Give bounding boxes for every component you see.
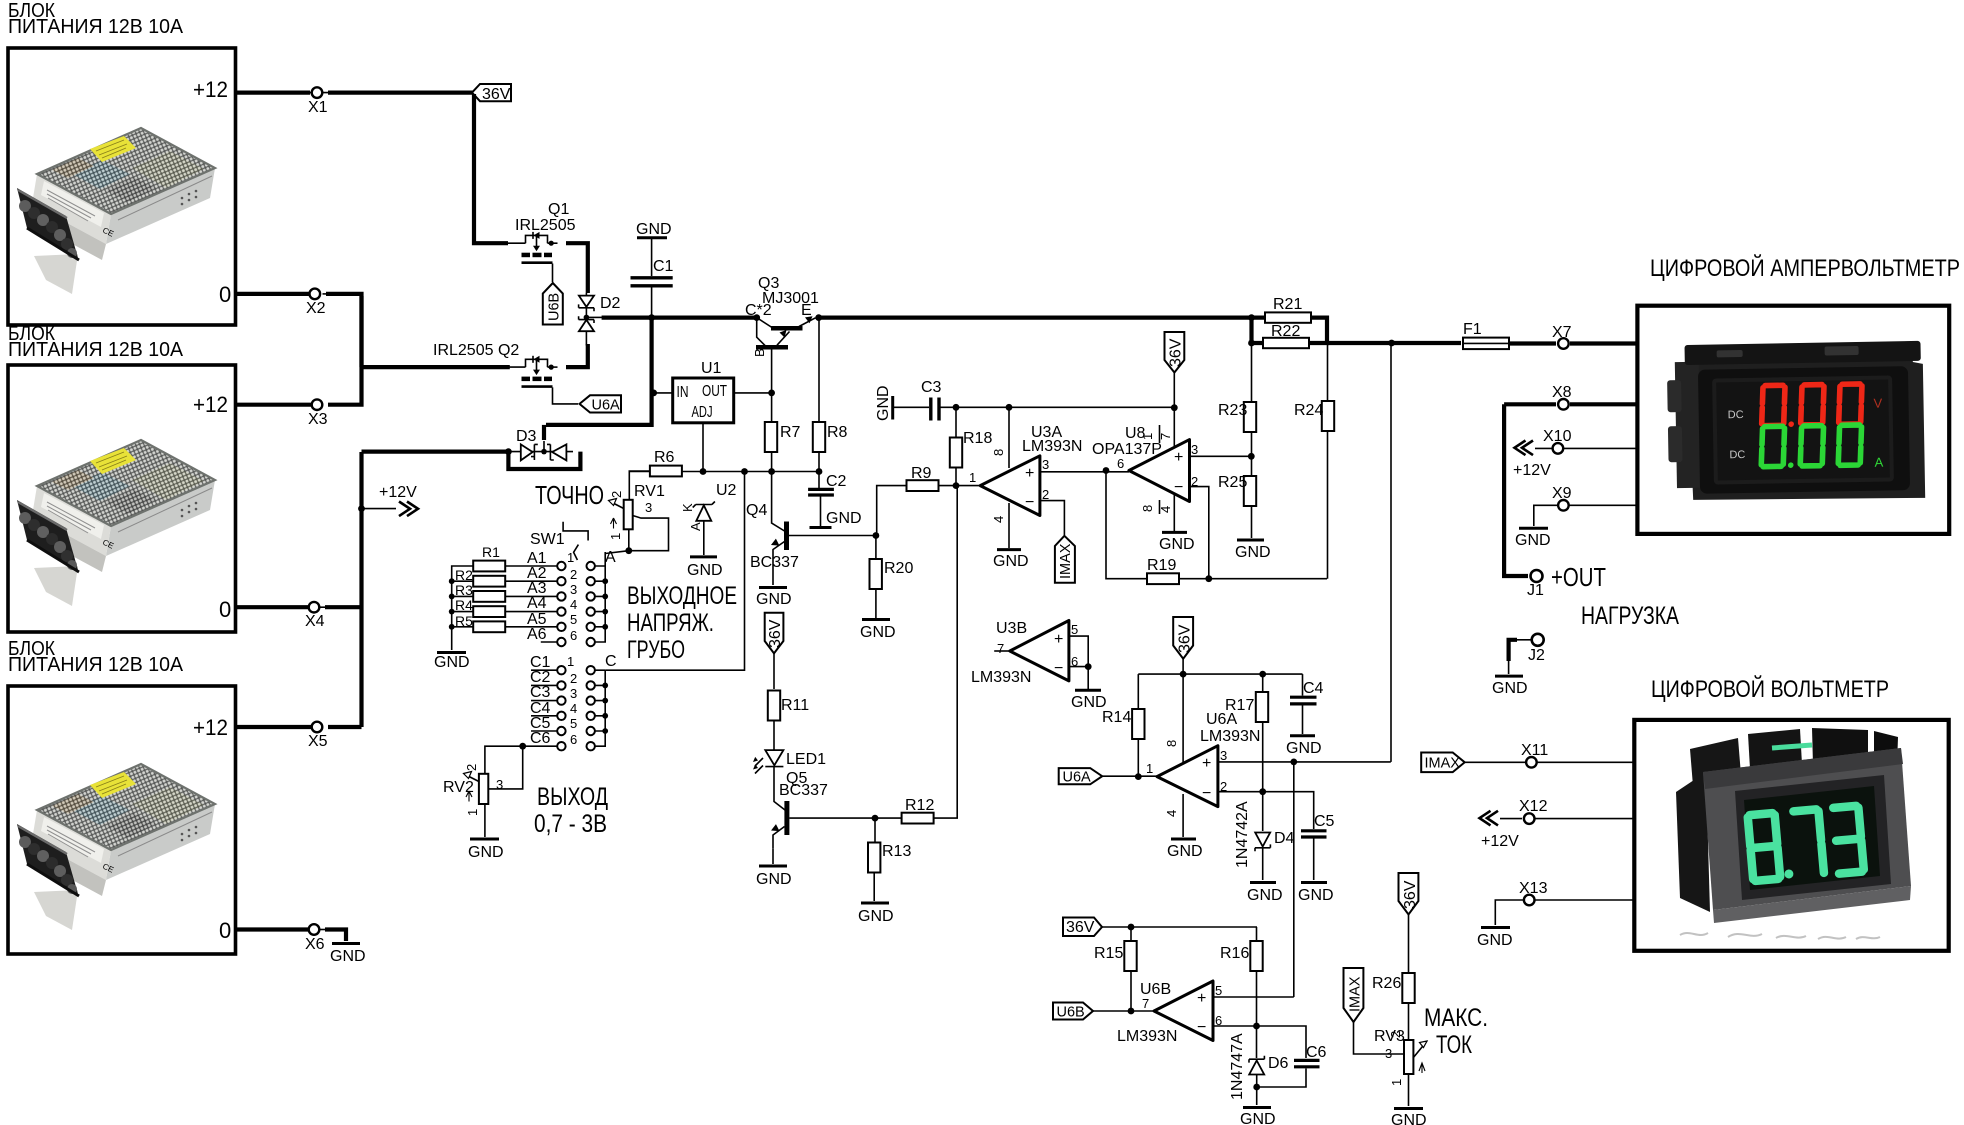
junction U3A pin1 node: [953, 482, 960, 489]
wire R14 top: [1137, 674, 1139, 709]
ground Q4: [756, 588, 792, 609]
svg-text:R24: R24: [1294, 402, 1323, 419]
ground C2: [810, 526, 832, 529]
svg-text:НАГРУЗКА: НАГРУЗКА: [1581, 602, 1679, 630]
wire R9 right: [939, 485, 980, 487]
wire R23 top: [1251, 343, 1253, 402]
junction R15/U6B: [1128, 1008, 1135, 1015]
svg-text:ЦИФРОВОЙ ВОЛЬТМЕТР: ЦИФРОВОЙ ВОЛЬТМЕТР: [1651, 675, 1889, 703]
wire R9 left to Q4 base node: [877, 486, 907, 536]
wire box3 0 to X6: [236, 927, 308, 931]
svg-text:X1: X1: [308, 99, 328, 116]
svg-text:1: 1: [1389, 1079, 1404, 1086]
svg-text:C4: C4: [1303, 680, 1324, 697]
svg-text:GND: GND: [1477, 932, 1513, 949]
svg-text:3: 3: [1220, 748, 1227, 763]
wire U6B pin6: [1213, 1026, 1306, 1058]
voltmeter photo: [1676, 728, 1911, 939]
svg-text:R21: R21: [1273, 296, 1302, 313]
wire C6 to RV2: [485, 746, 557, 774]
svg-text:A6: A6: [527, 626, 547, 643]
svg-text:R16: R16: [1220, 945, 1249, 962]
wire RV1 wiper: [629, 516, 669, 551]
svg-text:0,7 - 3В: 0,7 - 3В: [534, 810, 607, 838]
svg-text:C3: C3: [921, 379, 942, 396]
svg-text:OUT: OUT: [702, 383, 727, 400]
node X2: [306, 289, 329, 317]
wire U8 pin2 to R19 line: [1190, 487, 1209, 579]
svg-text:GND: GND: [1167, 843, 1203, 860]
wire X8 to ammeter: [1570, 402, 1637, 406]
wire R26 bottom to RV3: [1408, 1003, 1410, 1040]
wire U6A pin2: [1218, 792, 1314, 829]
wire box2 0 to X4: [236, 605, 308, 609]
node J2: [1528, 634, 1545, 664]
resistor R20: [870, 559, 914, 589]
svg-text:LM393N: LM393N: [1117, 1028, 1177, 1045]
wire X4 to vertical bus: [325, 605, 362, 609]
svg-text:C: C: [605, 653, 617, 670]
svg-text:+12: +12: [193, 392, 228, 417]
PSU photo 3: [17, 764, 215, 930]
svg-text:Q1: Q1: [548, 201, 569, 218]
junction bus/R21: [1248, 314, 1255, 321]
svg-text:GND: GND: [993, 553, 1029, 570]
svg-text:ADJ: ADJ: [692, 404, 713, 421]
svg-text:LM393N: LM393N: [1200, 728, 1260, 745]
wire U6A pin3: [1218, 761, 1391, 763]
svg-text:R15: R15: [1094, 945, 1123, 962]
resistor R24: [1294, 401, 1334, 431]
wire RV2 wiper: [488, 746, 522, 789]
wire A common vertical: [595, 552, 605, 642]
svg-text:ГРУБО: ГРУБО: [627, 636, 685, 664]
svg-text:+12V: +12V: [1513, 462, 1551, 479]
svg-text:3: 3: [496, 777, 503, 792]
svg-text:LM393N: LM393N: [1022, 438, 1082, 455]
svg-text:5: 5: [570, 612, 577, 627]
flag +12V arrow: [379, 484, 418, 516]
power supply box 1: [8, 48, 236, 325]
wire R7 top: [771, 393, 773, 422]
svg-text:GND: GND: [826, 510, 862, 527]
wire R6 left to RV1: [629, 471, 650, 500]
capacitor C3: [921, 379, 942, 421]
transistor Q5 BC337: [771, 770, 875, 864]
junction rail pin8: [1180, 671, 1187, 678]
svg-text:+: +: [1054, 631, 1063, 648]
svg-text:7: 7: [1142, 996, 1149, 1011]
svg-text:R6: R6: [654, 449, 675, 466]
node X13: [1519, 880, 1548, 905]
wire R24 bottom: [1327, 431, 1329, 579]
svg-text:2: 2: [570, 671, 577, 686]
text ВЫХОДНОЕ НАПРЯЖ. ГРУБО: [627, 582, 737, 664]
wire R11 to LED1: [773, 721, 775, 751]
junction R18 top: [953, 404, 960, 411]
svg-text:2: 2: [1388, 1031, 1403, 1038]
wire Q1 gate to U6B tag: [552, 264, 554, 283]
wire GND to C3: [893, 406, 929, 408]
wire A6 stub: [541, 641, 557, 643]
text МАКС. ТОК: [1424, 1004, 1488, 1059]
svg-text:−: −: [1174, 479, 1183, 496]
wire X2 to junction and down: [326, 294, 362, 367]
resistor R3: [455, 582, 505, 602]
svg-text:1: 1: [1146, 761, 1153, 776]
op-amp U3B LM393N: [971, 620, 1092, 689]
text ВЫХОД 0,7 - 3В: [534, 783, 608, 838]
op-amp U8 OPA137P: [1092, 425, 1198, 531]
junction C1-bus: [648, 314, 655, 321]
wire IMAX to RV3 wiper: [1354, 1022, 1405, 1054]
power supply box 3: [8, 686, 236, 954]
svg-text:U6B: U6B: [547, 293, 563, 321]
svg-text:36V: 36V: [1066, 919, 1095, 936]
svg-text:+OUT: +OUT: [1551, 562, 1606, 592]
svg-text:X8: X8: [1552, 384, 1572, 401]
resistor R22: [1263, 323, 1309, 348]
svg-text:ТОК: ТОК: [1436, 1031, 1472, 1059]
junction meter sense: [1388, 340, 1395, 347]
wire box1 +12 to X1: [236, 90, 310, 94]
ground J2: [1492, 676, 1528, 697]
ground RV2: [468, 839, 504, 861]
wire R20 top: [875, 536, 877, 560]
svg-text:1: 1: [567, 654, 574, 669]
wire X11 to voltmeter: [1537, 761, 1634, 763]
node X3: [308, 399, 335, 428]
ground X6: [330, 944, 366, 966]
resistor R5: [455, 613, 505, 632]
zener D4 1N4742A: [1234, 801, 1295, 880]
svg-text:0: 0: [219, 918, 231, 943]
wire 36V U6B rail: [1102, 926, 1257, 928]
svg-text:1: 1: [567, 550, 574, 565]
svg-text:GND: GND: [1515, 532, 1551, 549]
svg-text:3: 3: [1191, 442, 1198, 457]
svg-text:5: 5: [1071, 622, 1078, 637]
svg-text:5: 5: [1215, 983, 1222, 998]
wire LED1 to Q5: [774, 767, 785, 810]
wire vertical X4-X5 net to D3: [359, 452, 363, 727]
svg-text:3: 3: [570, 582, 577, 597]
svg-text:X3: X3: [308, 411, 328, 428]
svg-text:GND: GND: [1235, 544, 1271, 561]
wire R15 bottom: [1130, 971, 1132, 1011]
wire +12V tap: [362, 508, 397, 510]
junction Q4 base/R20: [873, 532, 880, 539]
svg-text:IMAX: IMAX: [1058, 543, 1074, 579]
switch SW1: [530, 522, 588, 560]
junction R22 left: [1248, 340, 1255, 347]
resistor R16: [1220, 941, 1263, 971]
svg-text:X9: X9: [1552, 485, 1572, 502]
svg-text:U6B: U6B: [1057, 1005, 1085, 1021]
wire R19 left to U8 out: [1106, 471, 1147, 579]
svg-text:X2: X2: [306, 300, 326, 317]
wire R13 top: [874, 818, 876, 843]
svg-text:R20: R20: [884, 560, 913, 577]
node X5: [308, 722, 335, 750]
wire R18 bottom: [955, 468, 957, 486]
flag +12V (X10): [1513, 441, 1552, 480]
svg-text:GND: GND: [687, 562, 723, 579]
svg-text:D6: D6: [1268, 1055, 1289, 1072]
svg-text:IRL2505: IRL2505: [515, 217, 576, 234]
svg-text:DC: DC: [1729, 449, 1745, 461]
ground D6: [1240, 1108, 1276, 1125]
text БЛОК ПИТАНИЯ 12В 10А (block 2): [8, 323, 184, 361]
PSU photo 1: [17, 128, 215, 294]
svg-text:+: +: [1174, 449, 1183, 466]
wire R21/R22 parallel left: [1252, 318, 1266, 343]
svg-text:1N4747A: 1N4747A: [1229, 1033, 1246, 1100]
svg-text:U1: U1: [701, 360, 722, 377]
svg-text:F1: F1: [1463, 321, 1482, 338]
svg-text:C6: C6: [530, 730, 551, 747]
resistor R18: [950, 430, 993, 468]
ground Q5: [756, 866, 792, 888]
wire R23 bottom: [1251, 432, 1253, 456]
svg-text:BC337: BC337: [779, 782, 828, 799]
svg-text:IMAX: IMAX: [1348, 976, 1364, 1012]
wire bus down to U1/D3: [546, 318, 652, 425]
wire X6 to ground: [325, 930, 346, 942]
svg-text:8: 8: [1140, 505, 1155, 512]
resistor R2: [455, 567, 505, 587]
resistor R6: [650, 449, 682, 476]
resistor R17: [1225, 692, 1268, 722]
svg-text:6: 6: [1117, 456, 1124, 471]
transistor Q2 IRL2505: [508, 356, 558, 387]
junction Q3 collector: [753, 314, 760, 321]
capacitor C2: [808, 473, 861, 527]
wire R18 top: [955, 407, 957, 438]
svg-text:+: +: [1202, 755, 1211, 772]
svg-text:U6A: U6A: [592, 398, 621, 414]
diode D2 (dual zener): [579, 293, 621, 346]
svg-text:GND: GND: [860, 624, 896, 641]
wire box1 0 to X2: [236, 292, 309, 296]
ground C5: [1298, 883, 1334, 905]
svg-text:R7: R7: [780, 424, 801, 441]
svg-text:R9: R9: [911, 465, 932, 482]
text БЛОК ПИТАНИЯ 12В 10А (block 3): [8, 638, 184, 676]
node X4: [305, 602, 326, 630]
wire IMAX to X11: [1465, 761, 1525, 763]
svg-text:ПИТАНИЯ 12В 10А: ПИТАНИЯ 12В 10А: [8, 339, 184, 361]
op-amp U6A LM393N: [1146, 674, 1260, 837]
zener D6 1N4747A: [1229, 1033, 1289, 1105]
svg-text:ВЫХОД: ВЫХОД: [537, 783, 608, 811]
junction pin3/vertical: [1290, 759, 1297, 766]
resistor R25: [1218, 474, 1256, 506]
wire 36V to U8 pin7: [1173, 373, 1175, 447]
wire box2 +12 to X3: [236, 403, 311, 407]
wire X7 to ammeter: [1570, 341, 1637, 345]
wire U3A pin2 to IMAX: [1040, 501, 1064, 535]
svg-text:GND: GND: [875, 385, 892, 421]
LED LED1: [753, 750, 826, 773]
power tag 36V (X1): [472, 84, 511, 103]
svg-text:LM393N: LM393N: [971, 669, 1031, 686]
ground U3A: [993, 550, 1029, 570]
wire 36V to R26: [1408, 915, 1410, 974]
wire ADJ row: [629, 471, 819, 473]
node X9: [1552, 485, 1572, 511]
tag U6A (comparator input): [1059, 768, 1103, 785]
voltmeter module box: [1634, 720, 1948, 951]
svg-text:A: A: [1874, 455, 1883, 470]
svg-text:2: 2: [570, 567, 577, 582]
junction R15: [1128, 924, 1135, 931]
svg-text:X12: X12: [1519, 798, 1548, 815]
resistor R14: [1102, 709, 1145, 739]
wire R14 bottom: [1137, 739, 1139, 777]
wire F1 to X7: [1509, 341, 1556, 345]
potentiometer RV2: [443, 764, 503, 816]
wire X1 to 36V tag: [328, 90, 476, 94]
svg-text:36V: 36V: [1402, 880, 1419, 909]
wire R19 right to R24: [1179, 578, 1327, 580]
wire U8 pin3 to R23/R25 node: [1190, 455, 1252, 457]
resistor R23: [1218, 402, 1256, 432]
wire bus to U1 IN: [653, 392, 673, 394]
ground R25: [1235, 540, 1271, 561]
wire U8 out junction: [1103, 467, 1110, 474]
svg-text:IN: IN: [677, 384, 689, 401]
svg-text:4: 4: [991, 516, 1006, 523]
wire X8 net to +OUT: [1504, 404, 1556, 576]
op-amp U3A LM393N: [969, 407, 1082, 548]
svg-text:R26: R26: [1372, 975, 1401, 992]
svg-text:GND: GND: [1159, 536, 1195, 553]
wire Q2 gate to U6A tag: [553, 387, 579, 404]
wire RV3 bottom: [1408, 1074, 1410, 1106]
svg-text:ПИТАНИЯ 12В 10А: ПИТАНИЯ 12В 10А: [8, 16, 184, 38]
wire U6A tag to pin1: [1102, 775, 1157, 777]
resistor R21: [1265, 296, 1311, 323]
wire X13 to voltmeter: [1535, 899, 1634, 901]
ground R1-R5: [434, 653, 470, 672]
svg-text:C6: C6: [1306, 1044, 1327, 1061]
svg-text:7: 7: [997, 641, 1004, 656]
junction R8/C2: [816, 468, 823, 475]
svg-text:C1: C1: [653, 258, 674, 275]
svg-text:GND: GND: [1298, 887, 1334, 904]
switch bank A contacts: [527, 549, 616, 646]
wire U1 OUT to Q3 base: [734, 392, 772, 394]
svg-text:ПИТАНИЯ 12В 10А: ПИТАНИЯ 12В 10А: [8, 654, 184, 676]
wire R17 top: [1262, 674, 1264, 692]
ground U6A: [1167, 839, 1203, 860]
svg-text:GND: GND: [756, 591, 792, 608]
junction rail R17: [1259, 671, 1266, 678]
wire U1 ADJ down: [702, 423, 704, 472]
svg-text:6: 6: [570, 732, 577, 747]
svg-text:GND: GND: [1240, 1111, 1276, 1125]
wire X5 to vertical: [328, 725, 362, 729]
svg-text:U3B: U3B: [996, 620, 1027, 637]
wire to Q2 drain: [360, 365, 510, 369]
resistor R11: [768, 691, 809, 721]
ground R13: [858, 903, 894, 925]
resistor R12: [902, 797, 935, 823]
svg-text:Q4: Q4: [746, 502, 767, 519]
svg-text:LED1: LED1: [786, 751, 826, 768]
wire R25 bottom: [1251, 506, 1253, 538]
svg-text:X4: X4: [305, 613, 325, 630]
transistor Q3 MJ3001: [745, 275, 819, 393]
transistor Q4 BC337: [746, 472, 876, 586]
flag +12V (X12): [1480, 811, 1523, 850]
svg-text:RV1: RV1: [634, 483, 665, 500]
svg-text:8: 8: [1164, 740, 1179, 747]
wire C common vertical: [595, 670, 605, 746]
tag IMAX (RV3): [1344, 968, 1364, 1022]
node J1: [1527, 570, 1544, 599]
wire R22 node to F1: [1327, 341, 1461, 345]
svg-text:36V: 36V: [1168, 338, 1185, 367]
wire R12 left: [875, 817, 902, 819]
svg-text:3: 3: [570, 686, 577, 701]
resistor R8: [813, 422, 848, 452]
junction RV1 bottom: [625, 547, 632, 554]
svg-text:R25: R25: [1218, 474, 1247, 491]
svg-text:C2: C2: [826, 473, 847, 490]
junction pin2/R17/D4: [1259, 788, 1266, 795]
svg-text:R17: R17: [1225, 697, 1254, 714]
wire R13 bottom: [873, 873, 875, 902]
resistor R13: [868, 843, 911, 873]
tag U6A (Q2 gate): [580, 395, 622, 413]
svg-text:3: 3: [1042, 457, 1049, 472]
svg-text:4: 4: [570, 701, 577, 716]
wire X3 to vertical: [328, 296, 362, 405]
svg-text:R3: R3: [455, 582, 473, 598]
wire pin3 node down to U6B pin5: [1293, 762, 1295, 997]
wire Q1 source to D2: [566, 243, 588, 293]
svg-text:0: 0: [219, 597, 231, 622]
node X7: [1552, 324, 1572, 349]
svg-text:8: 8: [991, 449, 1006, 456]
svg-text:+12V: +12V: [379, 484, 417, 501]
wire U3A pin3 to U8 out: [1040, 471, 1129, 473]
power supply box 2: [8, 365, 236, 632]
svg-text:GND: GND: [1492, 680, 1528, 697]
svg-text:1: 1: [969, 470, 976, 485]
wire X9 to ammeter: [1569, 504, 1637, 506]
svg-text:SW1: SW1: [530, 531, 565, 548]
tag U6B (Q1 gate): [543, 283, 563, 325]
svg-text:GND: GND: [1391, 1112, 1427, 1125]
svg-text:R23: R23: [1218, 402, 1247, 419]
zener U2: [680, 482, 737, 555]
wire D3 riser: [542, 425, 546, 440]
transistor Q1 IRL2505: [508, 232, 558, 263]
diode D3 (dual zener horizontal): [508, 428, 573, 460]
svg-text:GND: GND: [756, 871, 792, 888]
svg-text:1: 1: [608, 533, 623, 540]
svg-text:A: A: [605, 549, 616, 566]
svg-text:R11: R11: [781, 697, 809, 714]
wire J2 to ground: [1517, 639, 1531, 641]
wire R24 top: [1327, 343, 1329, 401]
ground U8: [1159, 532, 1195, 553]
wire R1-R5 common left: [452, 566, 474, 650]
svg-text:X6: X6: [305, 936, 325, 953]
